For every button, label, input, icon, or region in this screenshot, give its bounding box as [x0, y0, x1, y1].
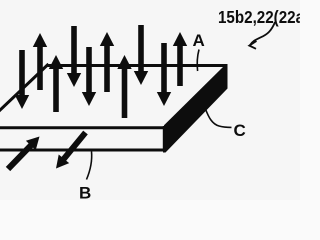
- svg-text:15b2,22(22a: 15b2,22(22a: [218, 7, 300, 27]
- arrow down 9: [157, 43, 171, 106]
- arrow up 7: [117, 55, 131, 118]
- wire front bottom edge of plate: [0, 149, 166, 152]
- arrow down 4: [67, 26, 81, 87]
- wire back top edge of plate: [47, 64, 228, 67]
- wire right edge of front face: [163, 126, 166, 152]
- arrow up 6: [100, 32, 114, 92]
- curved leader arrow from label 15b2: [250, 22, 275, 45]
- arrow down 8: [134, 25, 148, 85]
- leader line for A: [197, 50, 199, 72]
- leader line for B: [87, 152, 92, 180]
- arrowhead of curved leader: [249, 41, 256, 49]
- thick diagonal arrow B down-left: [56, 131, 88, 169]
- wire front top edge of plate: [0, 126, 166, 129]
- arrow up 3: [49, 55, 63, 112]
- arrow up 2: [33, 33, 47, 90]
- svg-text:A: A: [193, 31, 205, 50]
- leader line for C: [206, 109, 232, 127]
- arrow down 5: [82, 47, 96, 106]
- wire left slant edge of plate: [0, 64, 49, 113]
- thick diagonal arrow B up-right: [6, 137, 40, 172]
- svg-text:B: B: [79, 184, 91, 201]
- arrow up 10: [173, 32, 187, 86]
- side face C (black parallelogram): [163, 65, 228, 153]
- paper background: [0, 0, 300, 200]
- svg-text:C: C: [234, 121, 246, 140]
- arrow down 1: [15, 50, 29, 109]
